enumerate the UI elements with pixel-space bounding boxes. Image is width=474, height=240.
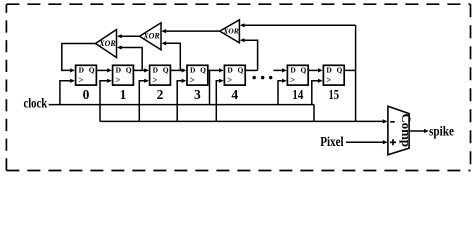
arrow into FF0 D	[70, 68, 75, 72]
svg-text:3: 3	[194, 87, 201, 102]
wire: XOR2 output into XOR1 upper input	[121, 35, 139, 37]
svg-text:D: D	[79, 66, 85, 75]
svg-text:XOR: XOR	[142, 32, 160, 41]
arrow into comparator plus input	[383, 140, 388, 144]
svg-text:Q: Q	[238, 66, 244, 75]
svg-text:XOR: XOR	[98, 39, 116, 48]
arrow into XOR1 upper input	[117, 34, 122, 38]
wire: XOR1 output to FF0 D input	[62, 44, 96, 71]
wire: Pixel input to comparator plus	[346, 141, 384, 143]
arrow into FF2 D	[144, 68, 149, 72]
svg-text:>: >	[152, 75, 157, 85]
arrow into FF14 D	[282, 68, 287, 72]
comparator Comp	[388, 106, 413, 155]
wire: XOR3 lower input tap from Q4	[244, 40, 257, 70]
wire: riser to FF2 clock pin	[139, 81, 145, 122]
arrow into FF1 clock	[107, 79, 112, 83]
wire: Q2 to D3	[170, 69, 182, 71]
wire: riser to FF14 clock pin	[278, 81, 284, 105]
svg-text:0: 0	[83, 87, 90, 102]
wire: Q1 to D2	[133, 69, 145, 71]
arrow into FF3 clock	[182, 79, 187, 83]
wire: into D14	[273, 69, 283, 71]
svg-text:Q: Q	[337, 66, 343, 75]
wire: XOR2 lower input tap from Q2	[166, 43, 181, 70]
arrow into FF15 clock	[318, 79, 323, 83]
XOR gate XOR2	[140, 23, 162, 50]
ellipsis dots between FF4 and FF14	[253, 76, 273, 79]
wire: Q3 to D4	[208, 69, 220, 71]
arrow into FF14 clock	[282, 79, 287, 83]
D flip-flop 2	[150, 65, 171, 102]
arrow into comparator minus input	[383, 119, 388, 123]
svg-text:Q: Q	[126, 66, 132, 75]
wire: riser to FF15 clock pin	[312, 81, 320, 105]
svg-text:XOR: XOR	[222, 27, 238, 36]
wire: XOR3 upper input long feedback line	[244, 24, 355, 26]
svg-text:D: D	[153, 66, 159, 75]
dashed enclosure border	[6, 4, 470, 170]
svg-text:14: 14	[292, 87, 303, 102]
svg-text:spike: spike	[429, 123, 454, 138]
arrow into FF4 clock	[219, 79, 224, 83]
svg-text:4: 4	[231, 87, 238, 102]
arrow into XOR3 lower input	[240, 38, 245, 42]
svg-text:>: >	[115, 75, 120, 85]
wire: Q14 to D15	[308, 69, 319, 71]
wire: comparator output to spike	[409, 130, 425, 132]
wire: XOR3 output into XOR2 upper input	[166, 30, 220, 32]
D flip-flop 1	[113, 65, 134, 102]
arrow into FF0 clock	[70, 79, 75, 83]
svg-text:Q: Q	[89, 66, 95, 75]
svg-text:1: 1	[120, 87, 127, 102]
svg-text:15: 15	[329, 87, 340, 102]
wire: riser to FF3 clock pin	[177, 81, 183, 122]
arrow into FF3 D	[182, 68, 187, 72]
wire: Q0 to D1	[96, 69, 108, 71]
svg-text:>: >	[227, 75, 232, 85]
svg-text:Comp: Comp	[399, 114, 413, 148]
svg-text:D: D	[326, 66, 332, 75]
wire: Q15 output to feedback vertical	[344, 69, 355, 71]
svg-text:D: D	[190, 66, 196, 75]
arrow into FF4 D	[219, 68, 224, 72]
arrowheads	[70, 23, 429, 144]
svg-text:>: >	[78, 75, 83, 85]
D flip-flop 0	[76, 65, 97, 102]
svg-text:Q: Q	[163, 66, 169, 75]
D flip-flop 3	[187, 65, 208, 102]
D flip-flop 4	[224, 65, 245, 102]
wire: XOR1 lower input tap from Q1	[121, 48, 142, 71]
D flip-flop 14	[287, 65, 308, 102]
svg-text:D: D	[116, 66, 122, 75]
svg-text:D: D	[227, 66, 233, 75]
svg-text:>: >	[190, 75, 195, 85]
wire: clock input line	[49, 104, 314, 106]
arrow into XOR2 upper input	[161, 29, 166, 33]
arrow into FF15 D	[318, 68, 323, 72]
svg-text:Q: Q	[200, 66, 206, 75]
XOR gate XOR3	[220, 20, 240, 43]
svg-text:Pixel: Pixel	[320, 134, 344, 149]
svg-text:Q: Q	[301, 66, 307, 75]
svg-text:clock: clock	[24, 96, 48, 111]
wire: Q4 to XOR3 tap riser	[245, 69, 257, 71]
arrow into XOR3 upper input	[240, 23, 245, 27]
wire: riser to FF4 clock pin	[216, 81, 220, 122]
svg-text:D: D	[290, 66, 296, 75]
arrow into FF2 clock	[144, 79, 149, 83]
svg-text:2: 2	[157, 87, 164, 102]
wire: clock riser to FF0 clock pin	[60, 81, 72, 105]
arrow into FF1 D	[107, 68, 112, 72]
wire: Q3 drop to bottom bus	[209, 70, 211, 104]
wire: clock rail end drop to bottom bus	[313, 105, 315, 122]
arrow on spike output	[424, 129, 429, 133]
D flip-flop 15	[323, 65, 344, 102]
wire: bottom bus to comparator minus input	[100, 120, 384, 122]
arrow into XOR2 lower input	[161, 41, 166, 45]
XOR gate XOR1	[96, 30, 117, 58]
svg-text:>: >	[326, 75, 331, 85]
arrow into XOR1 lower input	[117, 45, 122, 49]
wire: feedback vertical from XOR3 input level down to comparator minus line	[355, 25, 357, 121]
wire: riser to FF1 clock pin	[100, 81, 109, 122]
svg-text:>: >	[290, 75, 295, 85]
